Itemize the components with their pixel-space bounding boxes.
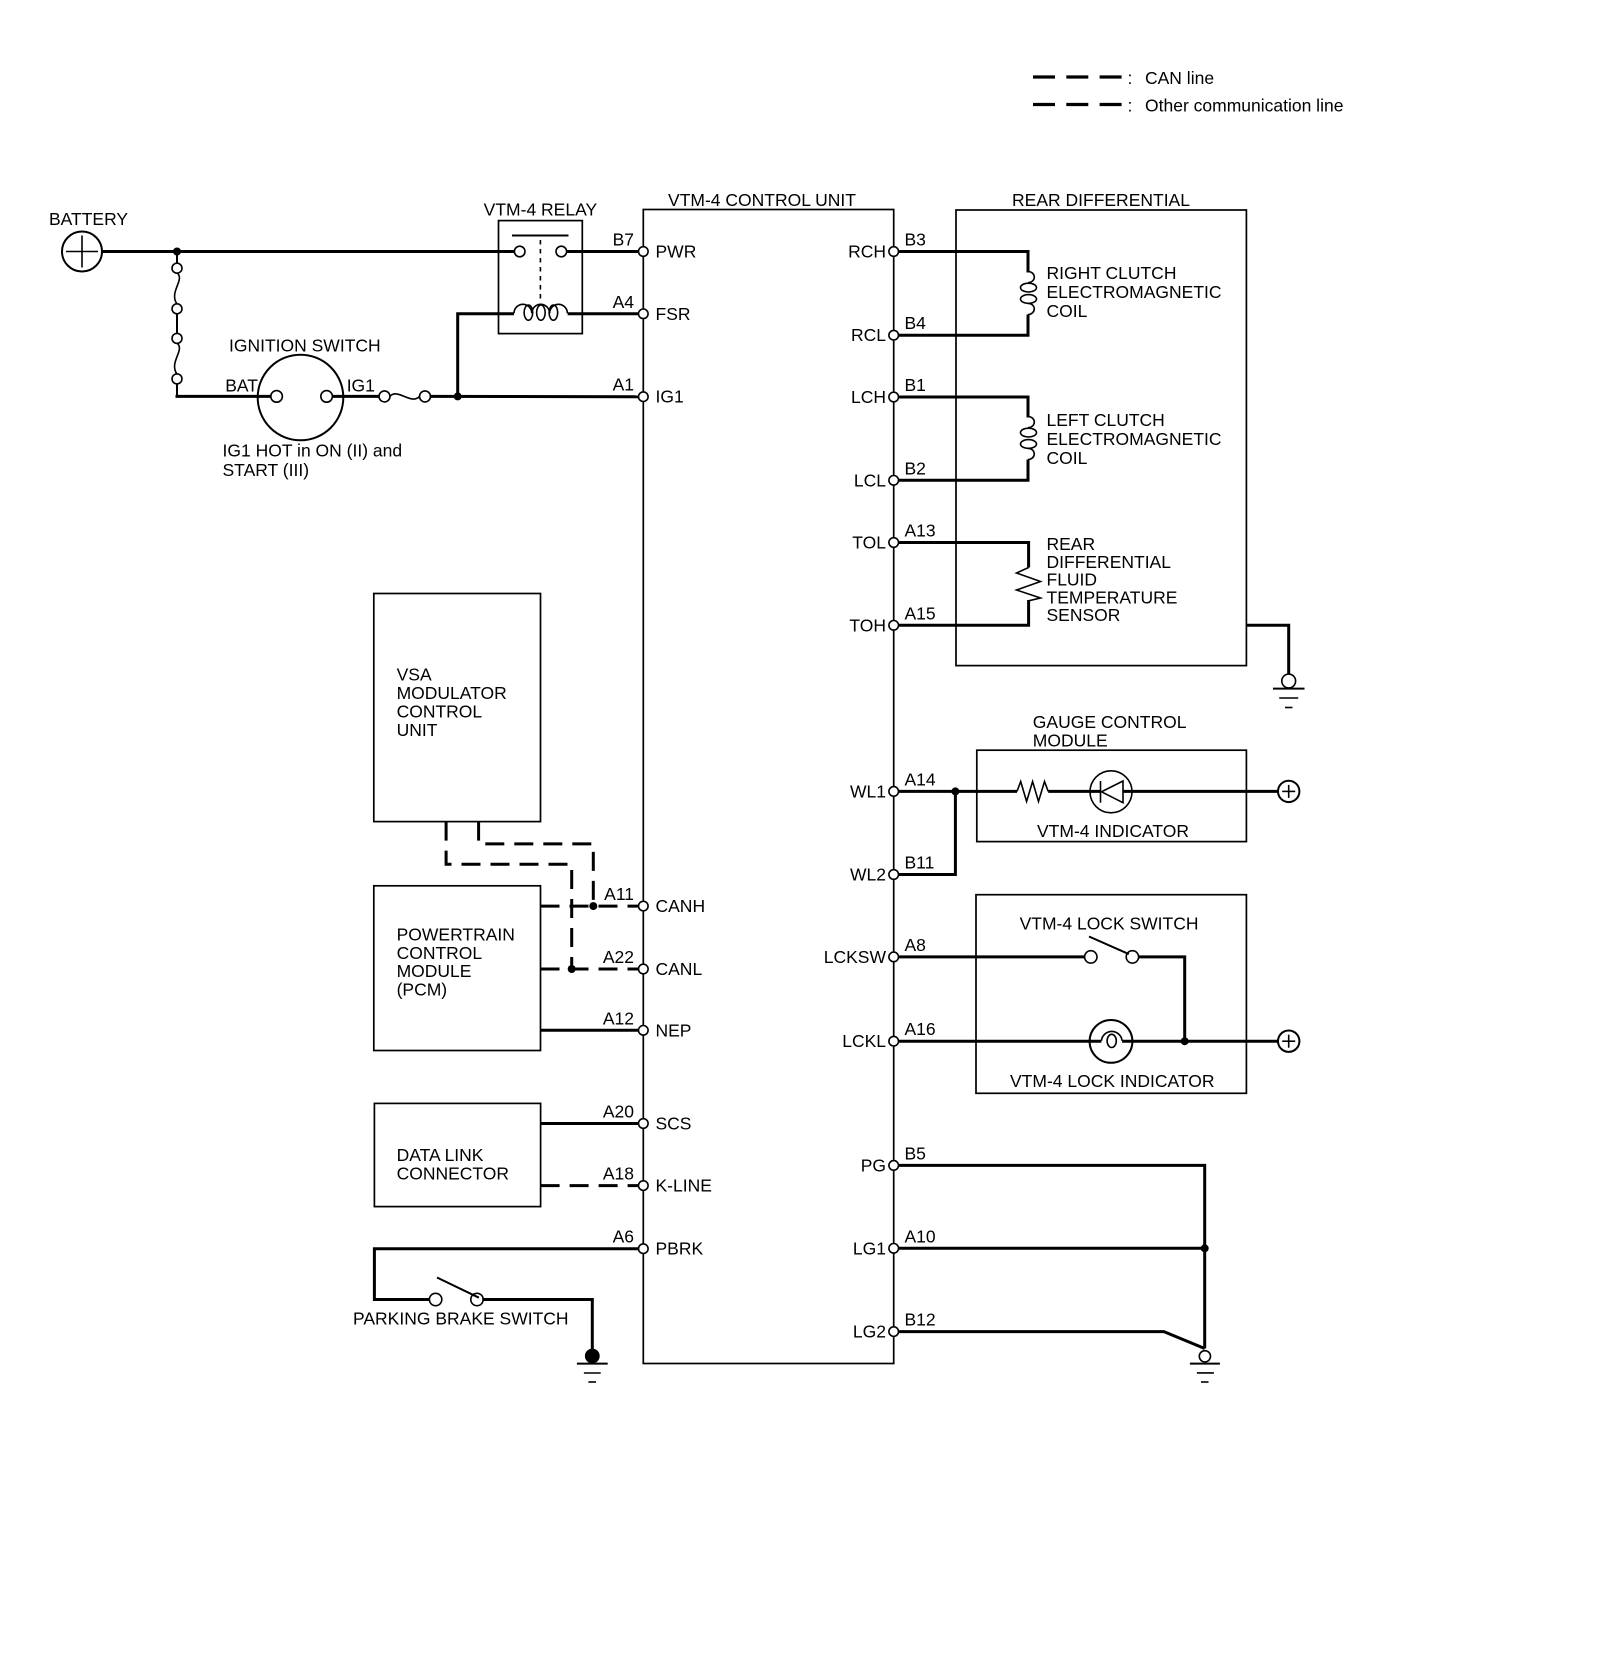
svg-text:VTM-4 RELAY: VTM-4 RELAY (484, 200, 598, 220)
svg-text:FSR: FSR (656, 304, 691, 324)
svg-text:A1: A1 (613, 375, 634, 395)
wire (CAN) VSA to CANH (479, 822, 594, 907)
wire right clutch coil to RCL (899, 315, 1029, 336)
svg-text:VTM-4 LOCK INDICATOR: VTM-4 LOCK INDICATOR (1010, 1071, 1215, 1091)
svg-text:PBRK: PBRK (656, 1239, 704, 1259)
svg-text:POWERTRAIN: POWERTRAIN (397, 925, 515, 945)
pin A22 CANL (603, 947, 703, 979)
svg-text:A18: A18 (603, 1164, 634, 1184)
node junction battery feed (173, 248, 181, 256)
fusible link (vertical) battery to BAT (172, 252, 182, 397)
svg-text:MODULE: MODULE (397, 961, 472, 981)
svg-text:VSA: VSA (397, 665, 432, 685)
svg-text:CONNECTOR: CONNECTOR (397, 1163, 509, 1183)
lamp VTM-4 lock indicator (1010, 1020, 1215, 1091)
ground (rear differential) (1273, 674, 1305, 707)
svg-text:BAT: BAT (225, 376, 258, 396)
svg-text:BATTERY: BATTERY (49, 209, 128, 229)
svg-text:VTM-4 INDICATOR: VTM-4 INDICATOR (1037, 821, 1189, 841)
resistor (VTM-4 indicator series) R1 (1017, 782, 1048, 802)
ignition switch IGNITION SWITCH (223, 336, 403, 481)
svg-text:VTM-4 CONTROL UNIT: VTM-4 CONTROL UNIT (668, 190, 856, 210)
pin A12 NEP (603, 1008, 692, 1040)
svg-text:LCKSW: LCKSW (824, 947, 887, 967)
svg-text:IGNITION SWITCH: IGNITION SWITCH (229, 336, 381, 356)
wire left clutch coil to LCL (899, 460, 1029, 481)
svg-text:B2: B2 (905, 458, 926, 478)
wire (CAN) VSA to CANL (446, 822, 572, 969)
wire WL2 to WL1 junction (899, 791, 956, 874)
svg-text:LCH: LCH (851, 387, 886, 407)
wire PG to ground bus (899, 1165, 1205, 1348)
legend Other communication line sample (1033, 96, 1343, 116)
svg-text:A6: A6 (613, 1227, 634, 1247)
svg-text:PARKING BRAKE SWITCH: PARKING BRAKE SWITCH (353, 1309, 569, 1329)
wire junction up to relay coil (458, 314, 514, 397)
wire LCKL to lamp (899, 1040, 1102, 1043)
svg-text:LCL: LCL (854, 470, 886, 490)
svg-text:B7: B7 (613, 230, 634, 250)
wire WL1 to indicator resistor (899, 790, 1018, 793)
svg-text:RCL: RCL (851, 325, 886, 345)
wire (communication) DLC to K-LINE (541, 1184, 644, 1187)
wire PCM to NEP (541, 1029, 644, 1032)
node junction CANL (568, 965, 576, 973)
switch parking brake switch S2 (353, 1278, 569, 1329)
VSA modulator control unit box (374, 594, 541, 822)
wire PBRK to parking brake switch (374, 1249, 643, 1300)
pin A13 TOL (852, 521, 935, 553)
svg-text:A15: A15 (905, 603, 936, 623)
svg-text:A12: A12 (603, 1008, 634, 1028)
pin B12 LG2 (853, 1310, 936, 1342)
pin A18 K-LINE (603, 1164, 712, 1196)
wire TOL to temperature sensor (899, 543, 1029, 568)
svg-text:ELECTROMAGNETIC: ELECTROMAGNETIC (1047, 282, 1222, 302)
svg-text:B4: B4 (905, 313, 927, 333)
legend CAN line sample (1033, 68, 1214, 88)
svg-text::: : (1128, 96, 1133, 116)
svg-text:IG1: IG1 (347, 376, 375, 396)
pin B2 LCL (854, 458, 926, 490)
pin B11 WL2 (850, 853, 934, 885)
wire fuse to BAT terminal (176, 395, 272, 398)
svg-text:CONTROL: CONTROL (397, 943, 483, 963)
svg-text:(PCM): (PCM) (397, 980, 448, 1000)
left clutch electromagnetic coil L2 (1021, 410, 1222, 468)
svg-text:A16: A16 (905, 1019, 936, 1039)
svg-text:A14: A14 (905, 769, 936, 789)
pin B4 RCL (851, 313, 926, 345)
node junction lock switch/indicator (1181, 1037, 1189, 1045)
svg-text:ELECTROMAGNETIC: ELECTROMAGNETIC (1047, 429, 1222, 449)
svg-text:VTM-4 LOCK SWITCH: VTM-4 LOCK SWITCH (1020, 914, 1199, 934)
node junction CANH (589, 902, 597, 910)
relay VTM-4 RELAY (484, 200, 598, 334)
power terminal (+) gauge module (1278, 781, 1299, 802)
svg-text:PWR: PWR (656, 242, 697, 262)
svg-text:A13: A13 (905, 521, 936, 541)
wire LED to plus terminal (1123, 790, 1278, 793)
svg-text:SENSOR: SENSOR (1047, 605, 1121, 625)
pin A14 WL1 (850, 769, 936, 801)
svg-text:RCH: RCH (848, 242, 886, 262)
node junction IG1/relay coil feed (454, 392, 462, 400)
svg-text:NEP: NEP (656, 1020, 692, 1040)
svg-text:B1: B1 (905, 375, 926, 395)
pin B7 PWR (613, 230, 697, 262)
ground (parking brake switch) (577, 1349, 608, 1382)
svg-text:REAR DIFFERENTIAL: REAR DIFFERENTIAL (1012, 190, 1190, 210)
fuse (horizontal) in IG1 feed (379, 391, 431, 402)
svg-text:CONTROL: CONTROL (397, 702, 483, 722)
svg-text:RIGHT CLUTCH: RIGHT CLUTCH (1047, 263, 1177, 283)
node junction LG1/ground bus (1201, 1244, 1209, 1252)
svg-text:A4: A4 (613, 292, 635, 312)
svg-text:Other communication line: Other communication line (1145, 96, 1343, 116)
svg-text:TOH: TOH (849, 615, 886, 635)
wire resistor to LED (1048, 790, 1100, 793)
svg-text:A20: A20 (603, 1102, 634, 1122)
wire (CAN) PCM to CANL (541, 968, 644, 971)
svg-text:COIL: COIL (1047, 448, 1088, 468)
right clutch electromagnetic coil L1 (1021, 263, 1222, 321)
svg-text:A8: A8 (905, 935, 926, 955)
pin A4 FSR (613, 292, 691, 324)
resistor: rear differential fluid temperature sensor RT1 (1017, 534, 1178, 625)
pin B5 PG (861, 1143, 926, 1175)
svg-text:COIL: COIL (1047, 301, 1088, 321)
svg-text:WL1: WL1 (850, 781, 886, 801)
pin A1 IG1 (613, 375, 684, 407)
svg-text:B12: B12 (905, 1310, 936, 1330)
svg-text:START (III): START (III) (223, 460, 310, 480)
pin A10 LG1 (853, 1226, 936, 1258)
pin A15 TOH (849, 603, 935, 635)
switch VTM-4 lock switch S1 (1085, 937, 1139, 964)
pin B3 RCH (848, 230, 926, 262)
svg-text:CANL: CANL (656, 959, 703, 979)
svg-text:TOL: TOL (852, 533, 886, 553)
svg-text:DATA LINK: DATA LINK (397, 1145, 484, 1165)
svg-text:B5: B5 (905, 1143, 926, 1163)
pin A11 CANH (604, 884, 705, 916)
wire IG1 terminal to fuse (332, 395, 380, 398)
wire (CAN) PCM to CANH (541, 905, 644, 908)
svg-text:IG1 HOT in ON (II) and: IG1 HOT in ON (II) and (223, 441, 403, 461)
wire relay coil to FSR pin (568, 312, 644, 315)
wire temperature sensor to TOH (899, 600, 1029, 625)
svg-text:A22: A22 (603, 947, 634, 967)
wire lock switch to LCKL junction (1139, 957, 1185, 1041)
svg-text:A11: A11 (604, 884, 634, 904)
svg-text:WL2: WL2 (850, 865, 886, 885)
wire relay contact to PWR pin (567, 250, 644, 253)
svg-text:SCS: SCS (656, 1114, 692, 1134)
wire LG2 to ground (899, 1332, 1205, 1349)
battery BATTERY (49, 209, 128, 272)
svg-text:CAN line: CAN line (1145, 68, 1214, 88)
svg-text:CANH: CANH (656, 896, 706, 916)
wire fuse to IG1 pin (430, 395, 644, 398)
powertrain control module (PCM) box (374, 886, 541, 1051)
data link connector box (374, 1103, 540, 1206)
svg-text:LCKL: LCKL (842, 1031, 886, 1051)
node junction WL1/WL2 (951, 787, 959, 795)
ground (LG2/PG) (1190, 1351, 1220, 1382)
svg-text::: : (1128, 68, 1133, 88)
wire DLC to SCS (541, 1122, 644, 1125)
wire RCH to right clutch coil (899, 252, 1029, 273)
svg-text:LG2: LG2 (853, 1322, 886, 1342)
svg-text:K-LINE: K-LINE (656, 1176, 712, 1196)
VTM-4 lock switch box (976, 895, 1246, 1094)
VTM-4 control unit box U1 (643, 190, 893, 1364)
svg-text:IG1: IG1 (656, 387, 684, 407)
rear differential box (956, 190, 1246, 666)
pin A6 PBRK (613, 1227, 704, 1259)
svg-text:UNIT: UNIT (397, 720, 438, 740)
wire battery to relay contact (102, 250, 515, 253)
gauge control module box (977, 712, 1247, 842)
power terminal (+) lock indicator (1278, 1031, 1299, 1052)
svg-text:B11: B11 (905, 853, 935, 873)
wire LG1 to ground bus (899, 1247, 1205, 1250)
svg-text:LG1: LG1 (853, 1238, 886, 1258)
wire parking brake switch to ground (482, 1300, 592, 1351)
svg-text:A10: A10 (905, 1226, 936, 1246)
wire rear differential case to ground (1246, 625, 1288, 674)
svg-text:MODULE: MODULE (1033, 731, 1108, 751)
svg-text:PG: PG (861, 1155, 886, 1175)
svg-text:B3: B3 (905, 230, 926, 250)
svg-text:GAUGE CONTROL: GAUGE CONTROL (1033, 712, 1187, 732)
wire LCH to left clutch coil (899, 397, 1029, 418)
pin A8 LCKSW (824, 935, 926, 967)
pin B1 LCH (851, 375, 926, 407)
svg-text:MODULATOR: MODULATOR (397, 683, 507, 703)
pin A20 SCS (603, 1102, 692, 1134)
pin A16 LCKL (842, 1019, 935, 1051)
LED VTM-4 indicator D1 (1037, 771, 1189, 841)
svg-text:LEFT CLUTCH: LEFT CLUTCH (1047, 410, 1165, 430)
wire LCKSW to lock switch (899, 955, 1086, 958)
wire lamp to plus terminal (1122, 1040, 1278, 1043)
